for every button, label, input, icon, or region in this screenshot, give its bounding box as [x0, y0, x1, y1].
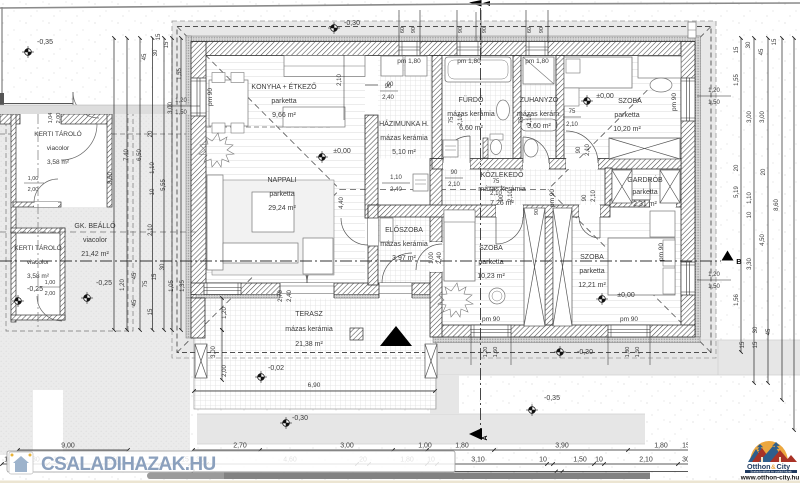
svg-text:3,00: 3,00: [168, 102, 174, 114]
svg-text:20: 20: [148, 130, 154, 137]
szoba TR bed: [564, 57, 632, 88]
wall furdo/zuhanyzo: [513, 56, 521, 159]
svg-text:3,90: 3,90: [555, 443, 569, 450]
wall konyha/hazimunka: [365, 115, 378, 218]
svg-text:1,80: 1,80: [654, 443, 668, 450]
door szoba BR: [579, 205, 600, 217]
svg-text:1,05: 1,05: [169, 280, 175, 292]
wall exterior right: [695, 36, 701, 337]
svg-text:pm 90: pm 90: [671, 93, 678, 111]
svg-text:2,10: 2,10: [566, 122, 578, 128]
svg-text:1,20: 1,20: [120, 279, 126, 291]
door hazimunka: [365, 85, 378, 115]
svg-text:B: B: [736, 257, 742, 266]
site boundary top: [0, 4, 485, 8]
section line B horizontal: [0, 260, 721, 262]
svg-text:parketta: parketta: [478, 259, 503, 266]
floor zuhanyzo: [521, 56, 556, 159]
wall bottom-B: [433, 325, 695, 337]
svg-text:pm 90: pm 90: [549, 189, 556, 207]
svg-text:10: 10: [539, 457, 547, 464]
hazimunka washer: [381, 56, 403, 76]
wall cseg3: [549, 159, 566, 170]
paving GK terrain: [0, 105, 190, 455]
svg-text:7,40: 7,40: [124, 149, 130, 161]
svg-text:15: 15: [740, 341, 746, 348]
svg-text:parketta: parketta: [269, 191, 294, 198]
logo sun: [750, 441, 788, 462]
wall cseg1: [432, 159, 443, 170]
door eloszoba/szobawing: [430, 242, 442, 272]
svg-text:90: 90: [458, 27, 464, 33]
elevation markers: [22, 46, 34, 58]
logo houses: [748, 449, 764, 462]
svg-text:pm 1,80: pm 1,80: [525, 58, 549, 65]
svg-text:-0,35: -0,35: [544, 395, 560, 402]
fence: [0, 103, 73, 105]
wall exterior top: [186, 36, 700, 42]
eloszoba cabinet: [380, 218, 393, 242]
gate arc: [73, 92, 99, 118]
svg-text:1,20: 1,20: [483, 347, 489, 358]
logo trees: [757, 444, 763, 447]
svg-text:mázas kerámia: mázas kerámia: [380, 241, 428, 248]
nappali rug: [212, 180, 334, 275]
svg-text:21,38 m²: 21,38 m²: [295, 341, 323, 348]
walkway front: [197, 414, 645, 444]
svg-text:2,40: 2,40: [287, 290, 293, 302]
svg-text:CSALADIHAZAK.HU: CSALADIHAZAK.HU: [41, 454, 216, 475]
svg-text:mázas kerámia: mázas kerámia: [285, 326, 333, 333]
svg-text:2,40: 2,40: [382, 95, 394, 101]
svg-text:ZUHANYZÓ: ZUHANYZÓ: [520, 95, 559, 104]
svg-text:1,50: 1,50: [635, 347, 641, 358]
svg-text:2,70: 2,70: [278, 290, 284, 302]
annex left wall: [11, 114, 16, 322]
door gardrob: [650, 200, 676, 207]
wall terrace left: [186, 298, 192, 338]
roof ridge: [340, 189, 548, 191]
wardrobe column bedrooms: [524, 208, 545, 326]
svg-text:9,00: 9,00: [61, 443, 75, 450]
svg-text:10: 10: [747, 211, 753, 218]
svg-text:2,40: 2,40: [437, 252, 443, 264]
svg-text:15: 15: [772, 38, 778, 45]
svg-text:1,20: 1,20: [708, 88, 720, 94]
svg-text:-0,30: -0,30: [577, 349, 593, 356]
wall elo/szoba-dn: [430, 272, 442, 337]
svg-text:9,66 m²: 9,66 m²: [272, 112, 296, 119]
svg-text:2,31 m²: 2,31 m²: [633, 201, 657, 208]
svg-text:±0,00: ±0,00: [617, 292, 635, 299]
svg-text:1,55: 1,55: [734, 74, 740, 86]
svg-text:GARDRÓB: GARDRÓB: [627, 175, 663, 184]
svg-text:12,21 m²: 12,21 m²: [578, 282, 606, 289]
svg-text:30: 30: [153, 49, 159, 56]
floor eloszoba: [378, 215, 430, 285]
wall bottom bedroom wing: [433, 337, 700, 343]
annex divider walls: [13, 202, 61, 207]
svg-text:6,90: 6,90: [308, 382, 321, 389]
floor furdo: [442, 56, 513, 159]
gray progress bar: [147, 473, 650, 480]
wall zuhanyzo/szoba: [556, 56, 564, 159]
svg-text:3,58 m²: 3,58 m²: [27, 273, 50, 280]
window top W3: [526, 42, 548, 56]
svg-text:45: 45: [132, 272, 138, 279]
svg-text:2,40: 2,40: [390, 187, 402, 193]
svg-text:30: 30: [160, 263, 166, 270]
svg-text:viacolor: viacolor: [27, 259, 50, 266]
zuhanyzo shower: [523, 57, 554, 84]
svg-text:15: 15: [753, 341, 759, 348]
svg-text:KONYHA + ÉTKEZŐ: KONYHA + ÉTKEZŐ: [251, 82, 317, 91]
gardrob wardrobes: [612, 170, 632, 203]
svg-text:±0,00: ±0,00: [596, 93, 614, 100]
svg-text:2,10: 2,10: [639, 457, 653, 464]
svg-text:45: 45: [142, 53, 148, 60]
window right szoba BR: [681, 262, 695, 295]
floor szoba bottom-left: [442, 217, 545, 325]
annex right wall room1: [107, 114, 112, 207]
svg-text:pm 1,80: pm 1,80: [397, 58, 421, 65]
svg-text:1,00: 1,00: [418, 443, 432, 450]
svg-text:30: 30: [746, 41, 752, 48]
door szoba TR: [566, 159, 598, 170]
svg-text:3,00: 3,00: [340, 443, 354, 450]
svg-text:-0,30: -0,30: [292, 415, 308, 422]
svg-text:2,00: 2,00: [222, 365, 228, 377]
svg-text:parketta: parketta: [614, 112, 639, 119]
window nappali bottom: [204, 283, 241, 295]
furdo wc: [483, 138, 488, 158]
floor hazimunka: [378, 56, 432, 159]
svg-text:8,60: 8,60: [774, 199, 780, 211]
svg-text:1,00: 1,00: [45, 280, 56, 286]
svg-text:7,26 m²: 7,26 m²: [490, 200, 514, 207]
svg-text:30: 30: [753, 326, 759, 333]
svg-text:15: 15: [156, 33, 162, 40]
kitchen counter: [284, 56, 365, 77]
svg-text:21,42 m²: 21,42 m²: [81, 251, 109, 258]
svg-text:10,20 m²: 10,20 m²: [613, 126, 641, 133]
svg-text:SZOBA: SZOBA: [479, 245, 503, 252]
svg-text:2,10: 2,10: [148, 224, 154, 236]
door nappali/eloszoba: [368, 218, 378, 246]
dimension row bottom 1: [193, 449, 701, 451]
dimension row bottom 2: [2, 463, 706, 465]
svg-text:-0,25: -0,25: [27, 286, 43, 293]
svg-text:15: 15: [164, 41, 170, 48]
svg-text:viacolor: viacolor: [47, 145, 70, 152]
svg-text:-0,35: -0,35: [37, 39, 53, 46]
window right szoba TR: [681, 78, 695, 121]
svg-text:90: 90: [387, 82, 394, 88]
svg-text:5,10 m²: 5,10 m²: [392, 149, 416, 156]
svg-text:3,97 m²: 3,97 m²: [392, 255, 416, 262]
window left kitchen: [191, 78, 206, 116]
wall top: [191, 42, 695, 56]
section arrow bottom A: [469, 428, 482, 440]
svg-text:45: 45: [132, 299, 138, 306]
svg-text:3,00: 3,00: [747, 111, 753, 123]
svg-text:5,55: 5,55: [161, 179, 167, 191]
svg-text:90: 90: [534, 209, 540, 215]
svg-text:pm 90: pm 90: [207, 88, 214, 106]
storage room1 door: [34, 202, 58, 207]
svg-text:-0,25: -0,25: [96, 280, 112, 287]
svg-text:2,00: 2,00: [45, 291, 56, 297]
plant szoba BL: [438, 283, 473, 317]
svg-text:1,55: 1,55: [177, 68, 183, 80]
window szoba BR: [608, 325, 650, 337]
svg-text:KERTI TÁROLÓ: KERTI TÁROLÓ: [14, 243, 61, 252]
terrace post left: [195, 344, 207, 378]
wall gardrob-left: [605, 168, 612, 205]
svg-text:NAPPALI: NAPPALI: [267, 177, 296, 184]
otthon-city logo: [688, 432, 800, 482]
floor szoba top-right: [564, 56, 681, 159]
furdo washer: [443, 140, 458, 157]
dimension cluster right: [740, 38, 742, 352]
svg-text:1,10: 1,10: [747, 192, 753, 204]
svg-text:75: 75: [493, 179, 500, 185]
wall bedrooms: [545, 217, 553, 325]
svg-text:20: 20: [734, 164, 740, 171]
svg-text:90: 90: [482, 27, 488, 33]
svg-text:1,00: 1,00: [429, 252, 435, 264]
roof eave band: [172, 21, 716, 352]
svg-text:3,30: 3,30: [747, 258, 753, 270]
svg-text:1,50: 1,50: [708, 284, 720, 290]
svg-text:KÖZLEKEDŐ: KÖZLEKEDŐ: [481, 170, 524, 179]
svg-text:GK. BEÁLLÓ: GK. BEÁLLÓ: [74, 221, 116, 230]
svg-text:TERASZ: TERASZ: [295, 311, 323, 318]
wall nappali/eloszoba: [368, 205, 378, 285]
szoba BR dresser: [650, 211, 675, 237]
svg-text:ELŐSZOBA: ELŐSZOBA: [385, 225, 423, 234]
wall szoba TR bottom: [598, 159, 681, 170]
szoba TR wardrobe: [609, 138, 680, 159]
szoba BR bed: [608, 238, 675, 295]
nappali table: [252, 192, 294, 232]
svg-text:20: 20: [761, 168, 767, 175]
svg-text:3,00: 3,00: [760, 111, 766, 123]
wall exterior left: [186, 36, 192, 298]
svg-text:8,60: 8,60: [108, 172, 114, 184]
svg-text:3,00: 3,00: [211, 346, 217, 358]
north arrow: [380, 326, 412, 346]
wall hazimunka/furdo: [432, 56, 442, 159]
storage room2 door: [37, 296, 62, 321]
svg-text:2,70: 2,70: [233, 443, 247, 450]
wall corr-bot1: [368, 205, 496, 217]
svg-text:A: A: [482, 435, 489, 440]
window top W1: [399, 42, 420, 56]
svg-text:1,20: 1,20: [222, 307, 228, 319]
svg-text:1,10: 1,10: [150, 162, 156, 174]
svg-text:2,10: 2,10: [490, 191, 502, 197]
svg-text:1,04: 1,04: [48, 113, 54, 124]
szoba TR desk: [638, 56, 681, 78]
svg-text:pm 1,80: pm 1,80: [457, 58, 481, 65]
svg-text:±0,00: ±0,00: [333, 148, 351, 155]
svg-text:-0,02: -0,02: [268, 365, 284, 372]
svg-text:60: 60: [527, 27, 533, 33]
svg-text:1,80: 1,80: [455, 443, 469, 450]
kitchen table: [209, 80, 248, 126]
svg-text:1,50: 1,50: [493, 347, 499, 358]
wall right: [681, 42, 695, 338]
annex garden storage walls: [13, 121, 112, 207]
svg-text:1,35: 1,35: [180, 280, 186, 292]
window szoba BL: [471, 325, 511, 337]
roof eave dashed outline: [172, 21, 716, 358]
svg-text:1,80: 1,80: [625, 347, 631, 358]
svg-text:15: 15: [152, 273, 158, 280]
svg-text:1,00: 1,00: [28, 176, 39, 182]
svg-text:www.otthon-city.hu: www.otthon-city.hu: [740, 475, 800, 482]
wall corridor-left: [430, 159, 442, 243]
svg-text:pm 90: pm 90: [482, 316, 500, 323]
svg-text:90: 90: [582, 194, 588, 201]
svg-text:HÁZIMUNKA H.: HÁZIMUNKA H.: [379, 119, 429, 128]
svg-text:10: 10: [150, 188, 156, 195]
svg-text:viacolor: viacolor: [83, 237, 108, 244]
svg-text:75: 75: [143, 280, 149, 287]
svg-text:3,58 m²: 3,58 m²: [47, 159, 70, 166]
nappali cabinet: [303, 238, 333, 274]
dimension lines top: [398, 10, 400, 41]
wall bottom-A: [191, 283, 433, 295]
wall corr-bot2: [523, 205, 579, 217]
svg-text:KERTI TÁROLÓ: KERTI TÁROLÓ: [34, 129, 81, 138]
svg-text:90: 90: [411, 27, 417, 33]
svg-text:pm 90: pm 90: [658, 243, 665, 261]
svg-text:parketta: parketta: [579, 268, 604, 275]
svg-text:3,10: 3,10: [471, 457, 485, 464]
svg-text:1,10: 1,10: [390, 175, 402, 181]
svg-text:parketta: parketta: [632, 189, 657, 196]
floor gardrob: [610, 168, 681, 205]
svg-text:2,10: 2,10: [458, 114, 464, 126]
annex top wall: [0, 114, 20, 124]
annex door: [20, 114, 61, 124]
svg-text:-0,30: -0,30: [344, 20, 360, 27]
svg-text:2,10: 2,10: [527, 114, 533, 126]
svg-text:75: 75: [449, 116, 455, 123]
svg-text:2,10: 2,10: [448, 182, 460, 188]
svg-text:90: 90: [451, 170, 458, 176]
kitchen island: [283, 107, 345, 127]
section arrow B right: [722, 251, 734, 261]
svg-text:1,20: 1,20: [175, 98, 187, 104]
door entry eloszoba: [379, 283, 412, 299]
aux dashed line left: [0, 231, 196, 233]
svg-text:75: 75: [519, 116, 525, 123]
svg-text:FÜRDŐ: FÜRDŐ: [459, 95, 484, 104]
walkway right: [430, 340, 800, 375]
svg-text:1,50: 1,50: [175, 110, 187, 116]
zuhanyzo sink: [524, 139, 538, 157]
svg-text:5,19: 5,19: [734, 186, 740, 198]
svg-text:SZOBA: SZOBA: [580, 254, 604, 261]
wall terrace-left: [191, 298, 205, 338]
svg-text:pm 90: pm 90: [620, 316, 638, 323]
window top W2: [457, 42, 481, 56]
door furdo: [443, 159, 470, 170]
svg-text:15: 15: [148, 308, 154, 315]
flue box: [350, 328, 363, 340]
svg-text:45: 45: [759, 48, 765, 55]
svg-text:2,00: 2,00: [56, 113, 62, 124]
svg-text:6,50: 6,50: [137, 149, 143, 161]
svg-text:10: 10: [595, 457, 603, 464]
terrace post right: [425, 344, 437, 378]
svg-text:1,50: 1,50: [708, 100, 720, 106]
svg-text:1,56: 1,56: [734, 294, 740, 306]
svg-text:Szabadonállóak és családi háza: Szabadonállóak és családi házak: [750, 470, 792, 474]
svg-text:4,40: 4,40: [339, 197, 345, 209]
door szoba BL: [496, 205, 523, 217]
floor parquet konyha+nappali: [206, 56, 365, 286]
svg-text:2,10: 2,10: [585, 144, 591, 156]
svg-text:45: 45: [766, 328, 772, 335]
door terrace double: [280, 283, 334, 299]
svg-text:2,00: 2,00: [28, 187, 39, 193]
plant nappali: [199, 133, 234, 167]
terrace TERASZ floor: [194, 298, 436, 409]
floor kozlekedo: [432, 169, 605, 205]
svg-text:90: 90: [576, 146, 582, 153]
svg-text:60: 60: [400, 27, 406, 33]
nappali sofa: [207, 175, 223, 270]
dimension row bottom 3: [193, 471, 710, 473]
svg-text:mázas kerámia: mázas kerámia: [380, 135, 428, 142]
svg-text:10,23 m²: 10,23 m²: [477, 273, 505, 280]
furdo sink: [497, 100, 510, 120]
furdo tub: [445, 57, 511, 82]
svg-text:2,10: 2,10: [591, 190, 597, 202]
roof hip lines: [177, 27, 340, 190]
svg-text:4,50: 4,50: [760, 234, 766, 246]
section line A vertical: [480, 8, 482, 430]
svg-text:90: 90: [539, 27, 545, 33]
wall left: [191, 42, 206, 299]
svg-text:15: 15: [734, 46, 740, 53]
watermark logo icon: [9, 452, 33, 474]
wall gardrob-bottom2: [676, 200, 681, 207]
watermark panel: [7, 451, 455, 472]
svg-text:1,20: 1,20: [708, 272, 720, 278]
wall corr-bot3: [600, 205, 610, 217]
door zuhanyzo: [523, 159, 549, 170]
szoba BL bed: [444, 210, 475, 281]
konyha/nappali divider: [206, 126, 330, 128]
carport roof dashed: [0, 133, 190, 135]
svg-text:1,50: 1,50: [573, 457, 587, 464]
szoba BL pot: [489, 288, 505, 304]
svg-text:SZOBA: SZOBA: [618, 98, 642, 105]
floor szoba bottom-right: [553, 217, 681, 325]
chimney top-right: [688, 22, 696, 38]
svg-text:75: 75: [569, 109, 576, 115]
wall cseg2: [470, 159, 523, 170]
svg-text:2,10: 2,10: [337, 74, 343, 86]
svg-text:parketta: parketta: [271, 98, 296, 105]
dimension cluster left: [113, 38, 115, 330]
section arrow top: [469, 0, 482, 7]
